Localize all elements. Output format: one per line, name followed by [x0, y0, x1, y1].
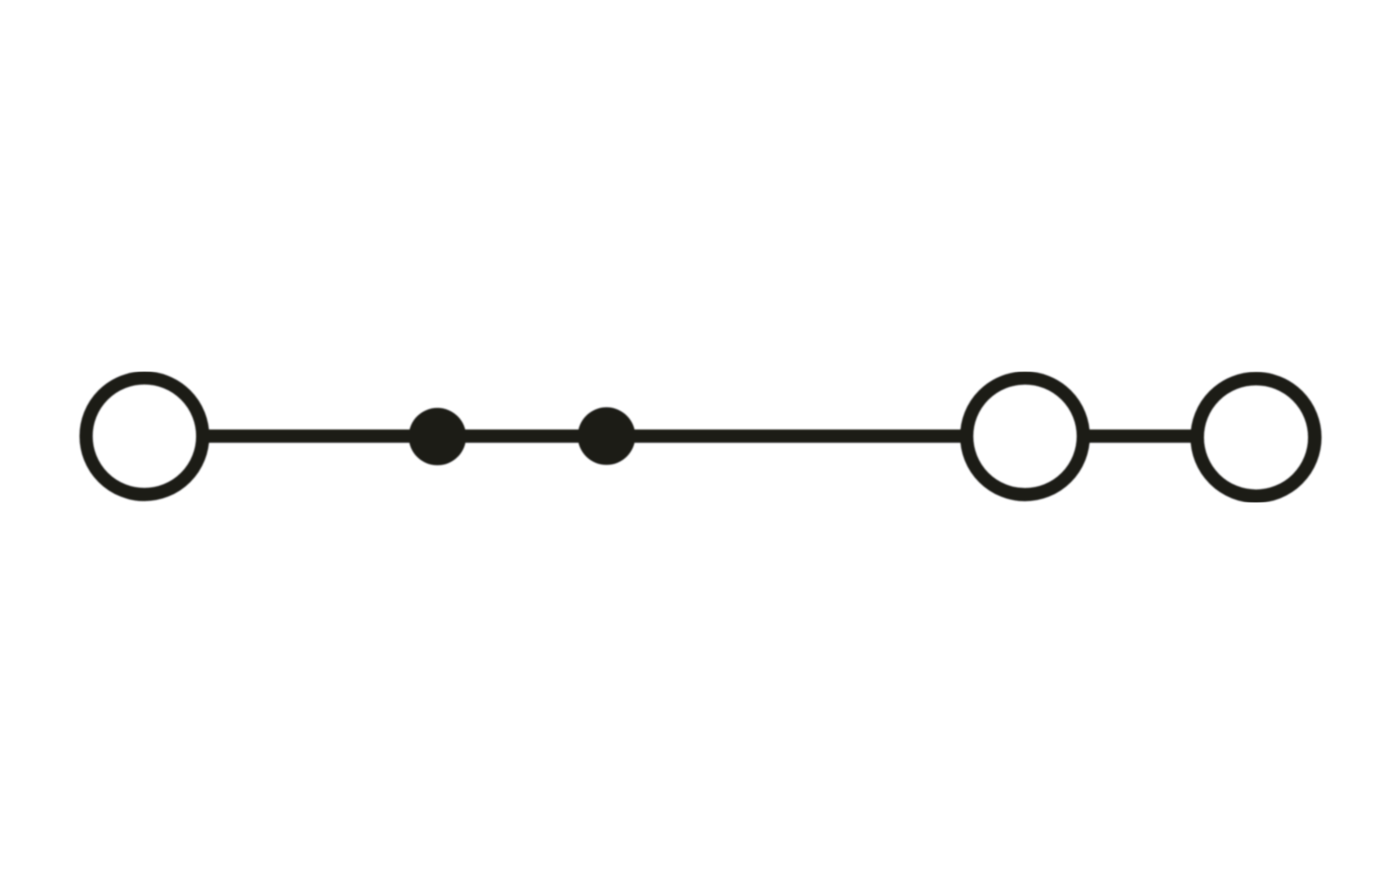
- wire: jumper from terminal 2 to terminal 3: [1086, 430, 1194, 443]
- junction dot 2 (bus tap): [578, 407, 636, 465]
- wire: internal bus from terminal 1 to terminal 2: [205, 430, 964, 443]
- terminal 3 (far-right clamp contact, open circle): [1197, 379, 1315, 497]
- terminal 2 (right clamp contact, open circle): [967, 378, 1084, 495]
- junction dot 1 (bus tap): [409, 408, 466, 465]
- terminal 1 (left clamp contact, open circle): [86, 378, 203, 495]
